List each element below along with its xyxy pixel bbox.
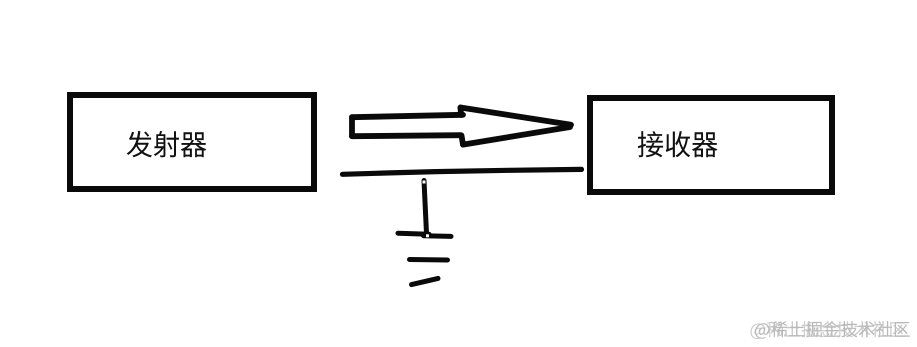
signal arrow from transmitter to receiver (352, 108, 571, 145)
white dot at ground stem junction (426, 234, 429, 237)
transmitter box 发射器 (70, 95, 314, 189)
white notch at top of ground stem (423, 181, 426, 184)
wire: ground stem (424, 181, 427, 234)
receiver label 接收器 (638, 131, 718, 157)
watermark @稀土掘金技术社区 (751, 321, 910, 339)
receiver box 接收器 (590, 98, 832, 192)
transmitter label 发射器 (127, 131, 207, 158)
ground symbol (398, 233, 451, 284)
wire: horizontal line between boxes (343, 169, 582, 174)
